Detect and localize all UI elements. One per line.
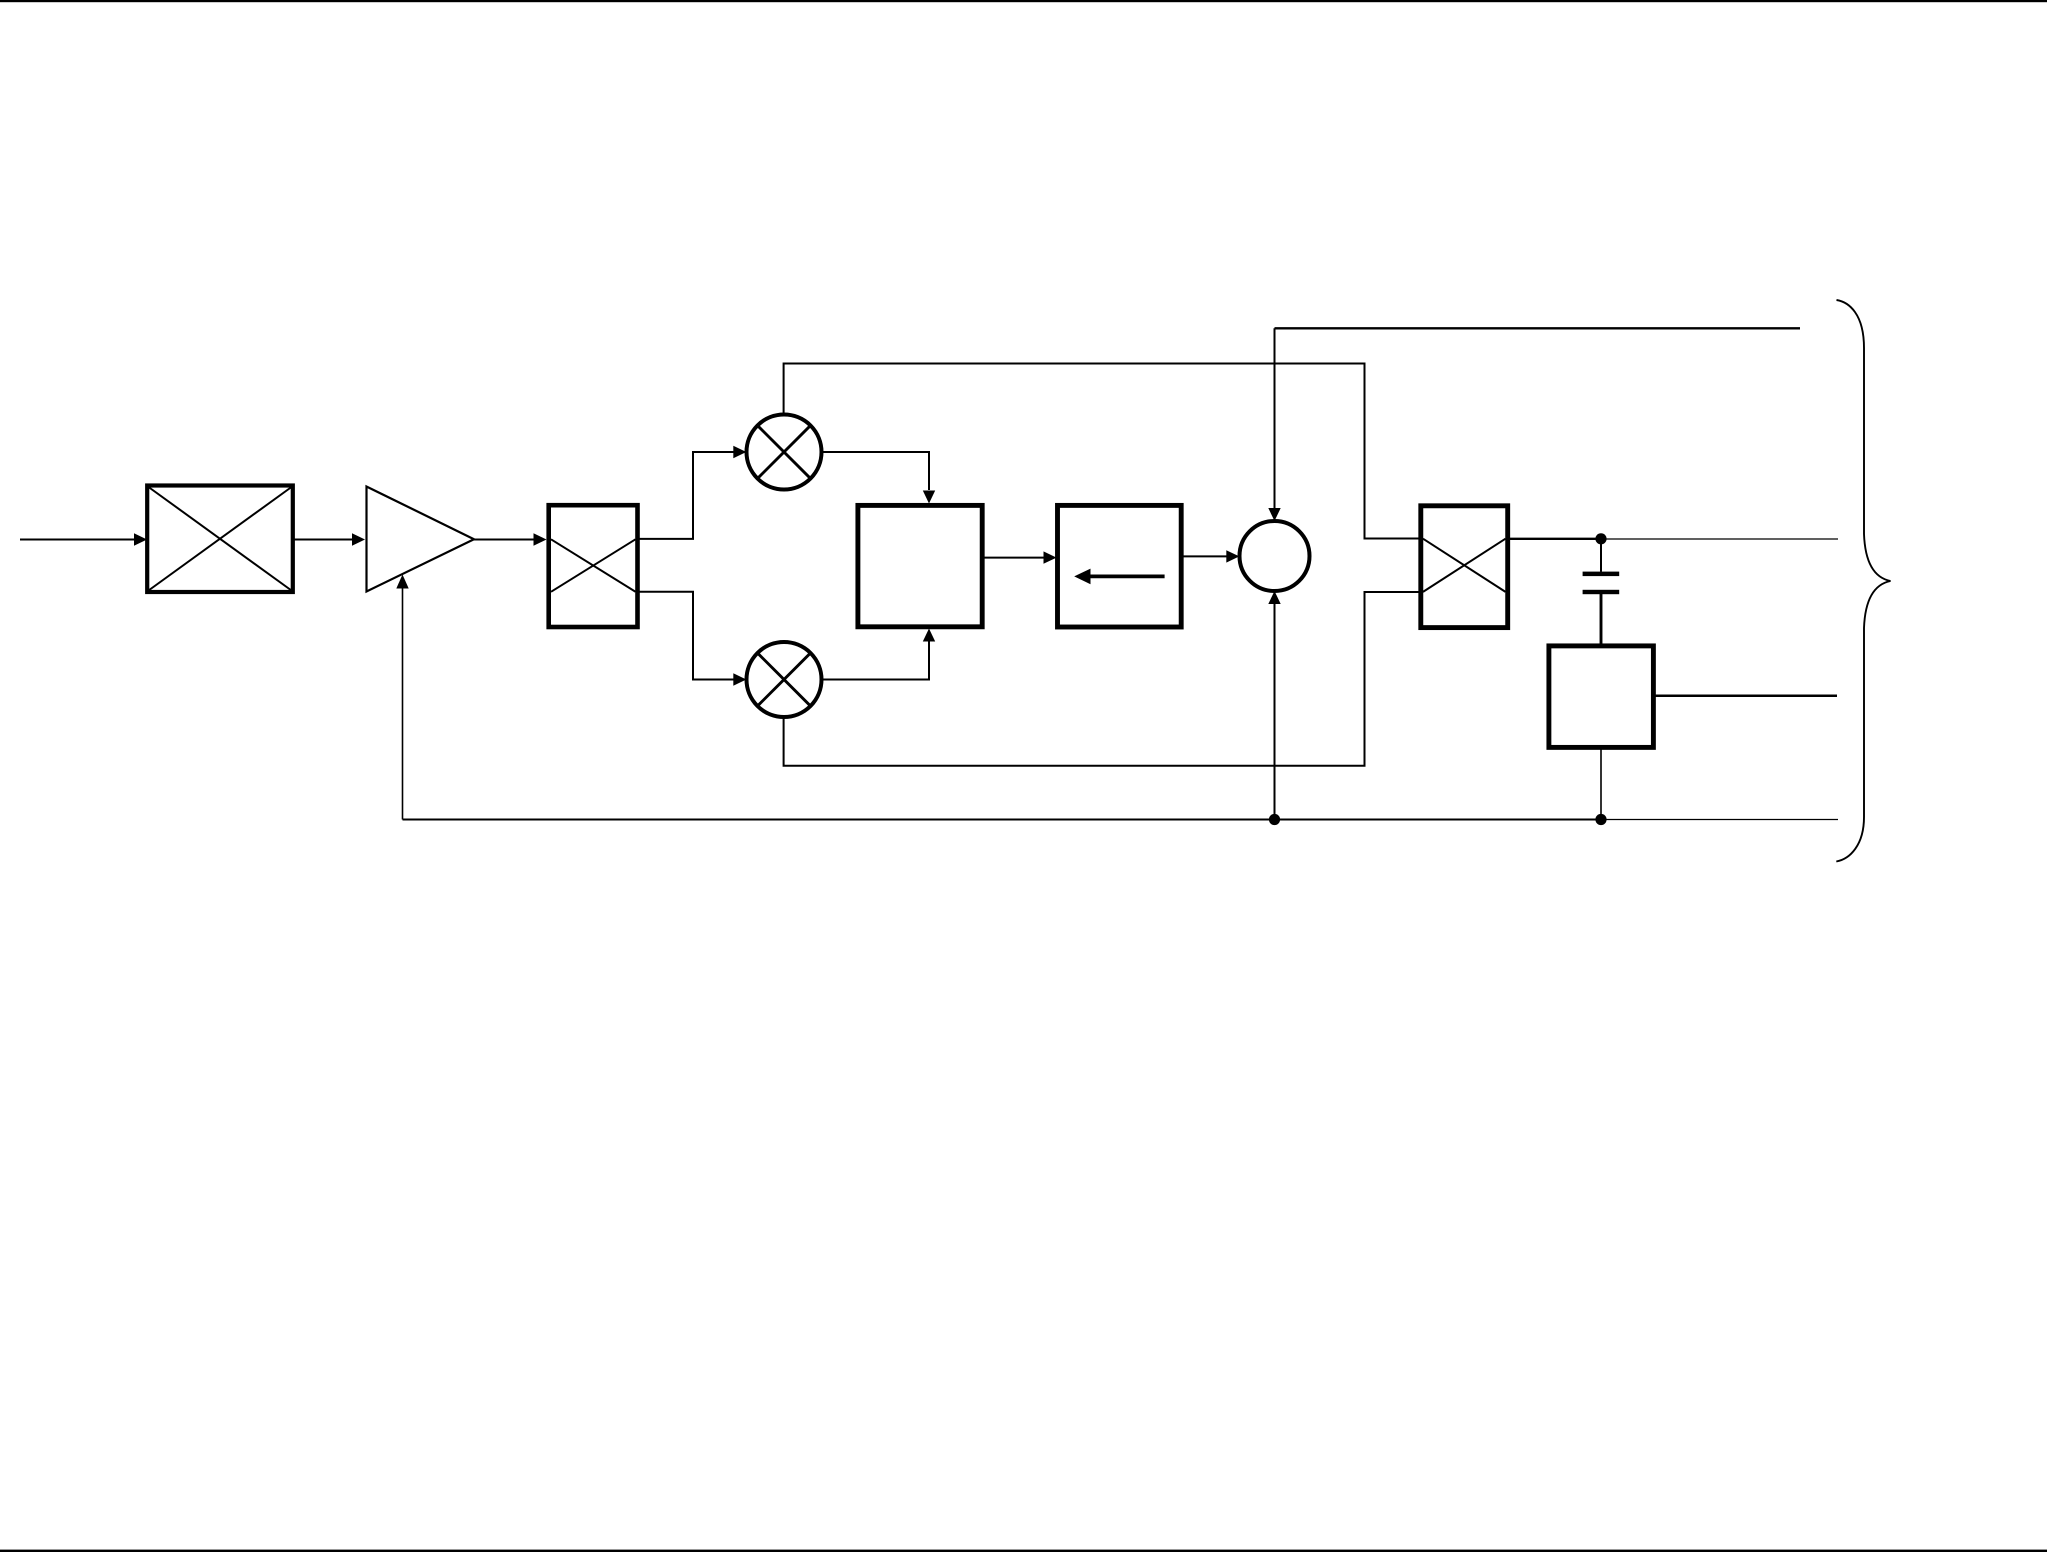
wire B3 to summing node: [1181, 550, 1239, 562]
bottom feedback wire: [403, 819, 1839, 821]
LO wire switch S2 bottom port to M2 bottom: [784, 592, 1419, 766]
capacitor C1: [1583, 543, 1620, 646]
output brace: [1836, 300, 1890, 862]
block B5 (square): [1549, 646, 1654, 748]
wire B2 to B3: [982, 551, 1057, 563]
switch S2 (box with X): [1421, 506, 1508, 628]
wire F1 to amplifier: [293, 533, 365, 545]
wire M1 output to block B2 top: [822, 452, 936, 504]
wire B5 bottom to node N2: [1600, 747, 1602, 817]
mixer M2 (circle with X): [747, 642, 822, 717]
block B2 (square): [858, 505, 982, 626]
wire input: [20, 533, 147, 545]
wire M2 output to block B2 bottom: [822, 629, 936, 680]
wire output2 (thin): [1601, 538, 1838, 540]
gain-control arrow into amplifier: [396, 575, 408, 820]
LO wire M1 top to switch S2 top port: [784, 364, 1419, 539]
block B3 (box with left arrow): [1058, 505, 1182, 627]
wire amplifier to splitter: [474, 533, 547, 545]
wire splitter top output to mixer M1: [638, 446, 747, 539]
amplifier A1 (triangle): [367, 487, 475, 592]
filter block F1 (box with X): [147, 486, 293, 593]
wire output3 from B5: [1653, 695, 1837, 698]
top feedback wire into summing node: [1268, 328, 1280, 521]
node N3 (junction dot on feedback line): [1269, 814, 1280, 825]
splitter S1 (box with X): [549, 505, 638, 627]
mixer M1 (circle with X): [747, 415, 822, 490]
wire S2 output to node: [1508, 538, 1597, 540]
wire output1 (top line): [1275, 327, 1801, 329]
node N1 (junction dot): [1595, 533, 1606, 544]
bottom wire into summing node: [1268, 591, 1280, 820]
wire splitter bottom output to mixer M2: [638, 592, 747, 686]
summing node (circle): [1240, 521, 1310, 591]
node N2 (junction dot): [1595, 814, 1606, 825]
